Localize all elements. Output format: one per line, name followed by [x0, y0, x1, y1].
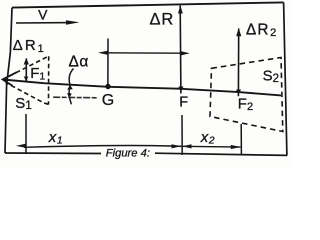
caption Figure 4: [106, 147, 150, 159]
label F2: [238, 96, 253, 114]
svg-text:S1: S1: [15, 95, 32, 112]
x2 extension line right: [240, 124, 242, 155]
frame bottom border left segment: [5, 152, 101, 155]
dimension right arrowhead: [181, 51, 190, 55]
label G: [102, 92, 114, 109]
label delta R1: [13, 37, 46, 55]
x2 right arrowhead: [231, 145, 241, 149]
x extension line middle below F: [181, 115, 183, 155]
x1 extension line left: [25, 114, 27, 153]
velocity arrow V line: [16, 22, 73, 24]
force arrow F1 top head: [24, 58, 29, 65]
label delta R: [150, 11, 175, 29]
svg-text:V: V: [38, 7, 48, 23]
delta R bottom arrowhead at F: [178, 86, 183, 91]
frame left border: [5, 8, 12, 153]
label F: [179, 94, 188, 110]
surface S2 dashed quadrilateral: [210, 58, 283, 132]
label x1: [48, 129, 63, 147]
label delta R2: [246, 22, 278, 40]
main axis left open arrowhead: [3, 72, 17, 86]
frame bottom border right segment: [155, 153, 287, 155]
force arrow F1 bottom head: [24, 77, 28, 82]
svg-text:Δα: Δα: [69, 54, 89, 71]
delta R2 axis vertical line: [237, 29, 239, 97]
frame right border: [284, 2, 287, 155]
horizontal reference dashed line: [53, 96, 98, 99]
node G dot: [105, 84, 110, 89]
angle arc below line: [69, 86, 71, 105]
delta R up arrowhead: [178, 5, 183, 13]
delta R2 up arrowhead: [236, 28, 241, 36]
x2 left arrowhead: [182, 144, 191, 148]
dimension left arrowhead: [98, 51, 109, 56]
angle arc down arrowhead: [67, 93, 72, 98]
label V: [38, 7, 48, 23]
frame top border: [12, 2, 284, 7]
delta R2 bottom arrowhead at F2: [236, 89, 241, 94]
main axis line: [3, 80, 281, 96]
vertical line above G: [107, 39, 109, 85]
label delta alpha: [69, 54, 89, 71]
svg-text:Figure 4:: Figure 4:: [106, 147, 150, 159]
velocity arrowhead: [66, 20, 80, 25]
svg-text:G: G: [102, 92, 114, 109]
x1 left arrowhead: [16, 144, 26, 148]
force arrow F1 line: [25, 59, 27, 82]
label S2: [263, 68, 279, 86]
delta R axis vertical line: [179, 6, 182, 94]
label F1: [30, 65, 45, 83]
label x2: [200, 129, 215, 147]
dimension base line x1 x2: [24, 146, 240, 148]
label S1: [15, 95, 32, 112]
svg-text:ΔR: ΔR: [150, 11, 175, 29]
svg-text:F: F: [179, 94, 188, 110]
dimension line G to F: [104, 52, 183, 54]
angle leader curve above line: [69, 69, 73, 85]
surface S1 dashed wedge: [3, 56, 49, 104]
angle arc up arrowhead: [67, 85, 73, 90]
x1 right arrowhead: [172, 144, 182, 148]
